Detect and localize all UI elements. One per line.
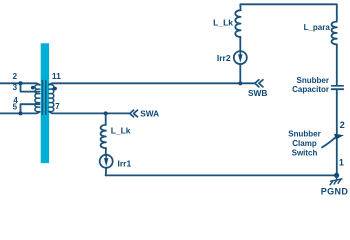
switch SWA chevrons — [130, 110, 134, 117]
wire pin 7 to SWA — [49, 112, 129, 114]
wire L_para to snubber capacitor — [336, 44, 338, 85]
node pins 4/5 junction — [19, 111, 23, 115]
svg-text:1: 1 — [339, 157, 344, 167]
svg-text:SWA: SWA — [140, 108, 159, 118]
svg-text:Snubber: Snubber — [288, 129, 320, 138]
svg-text:L_para: L_para — [304, 23, 331, 32]
svg-text:5: 5 — [13, 103, 18, 112]
wire pin 11 to node SWB — [49, 83, 254, 84]
inductor L_Lk (primary leakage, top) — [235, 10, 240, 37]
wire Irr2 to L_Lk2 — [239, 37, 241, 51]
primary polarity dot — [31, 86, 35, 90]
wire Irr1 to bottom rail — [105, 168, 108, 176]
svg-text:Capacitor: Capacitor — [292, 85, 329, 94]
transformer T1 core — [42, 81, 45, 115]
ground PGND symbol — [336, 175, 338, 178]
svg-text:2: 2 — [13, 72, 18, 81]
transformer T1 secondary winding — [49, 85, 54, 112]
inductor L_para — [331, 22, 336, 45]
wire snubber capacitor to PGND — [336, 90, 338, 176]
current source Irr1 — [100, 155, 113, 168]
node PGND junction — [334, 173, 339, 178]
node pins 2/3 junction — [19, 81, 23, 85]
current source Irr2 — [234, 51, 247, 64]
node SWA junction — [104, 111, 108, 115]
wire node SWA down to L_Lk1 — [105, 113, 107, 125]
switch SWB chevrons — [255, 80, 259, 87]
svg-text:3: 3 — [13, 83, 18, 92]
svg-text:Switch: Switch — [292, 149, 318, 158]
wire bracket pins 2/3 to winding tap — [21, 83, 40, 91]
svg-text:SWB: SWB — [248, 88, 267, 98]
svg-text:Irr2: Irr2 — [217, 53, 231, 63]
wire node SWB up to Irr2 — [239, 64, 241, 83]
svg-text:Snubber: Snubber — [297, 76, 329, 85]
callout arrow to snubber clamp switch — [322, 138, 335, 148]
svg-text:Irr1: Irr1 — [118, 159, 132, 169]
isolation barrier bar — [41, 43, 49, 163]
svg-text:7: 7 — [55, 102, 60, 111]
wire bracket pins 4/5 to winding tap — [21, 104, 40, 113]
svg-text:L_Lk: L_Lk — [111, 126, 131, 136]
wire pin 2/3 lead — [0, 83, 40, 85]
secondary polarity dot — [53, 87, 57, 91]
wire pin 4/5 lead — [0, 112, 40, 114]
svg-text:11: 11 — [52, 71, 61, 81]
svg-text:Clamp: Clamp — [292, 139, 317, 148]
snubber capacitor plates — [332, 85, 344, 87]
svg-text:L_Lk: L_Lk — [213, 18, 233, 28]
wire bottom rail to PGND — [106, 174, 337, 176]
wire L_Lk1 to Irr1 — [105, 148, 107, 155]
svg-text:2: 2 — [340, 120, 345, 130]
transformer T1 primary winding — [35, 85, 40, 112]
wire top rail — [240, 4, 336, 21]
inductor L_Lk (secondary leakage, bottom) — [101, 125, 106, 148]
svg-text:PGND: PGND — [321, 186, 349, 196]
node SWB junction — [238, 81, 242, 85]
